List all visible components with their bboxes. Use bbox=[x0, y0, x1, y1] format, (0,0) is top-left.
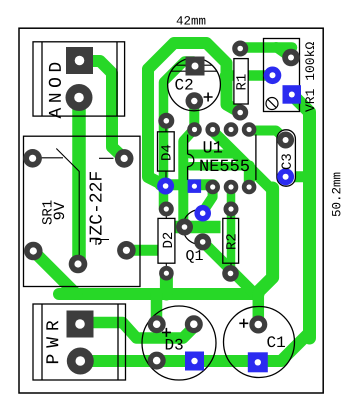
label 9V bbox=[54, 202, 65, 219]
label R2 bbox=[226, 234, 235, 249]
wire bottom band PWR round pad to right side bbox=[80, 333, 309, 362]
wire long horizontal band y294 bbox=[59, 288, 259, 300]
pad PWR round pin 2 bbox=[67, 348, 94, 375]
pad PWR square pin 1 bbox=[67, 311, 94, 338]
wire R1 top pad to VR1 dark pad bbox=[240, 42, 292, 53]
wire pin4 net vertical down to y294 band bbox=[259, 188, 273, 292]
label D3 bbox=[166, 339, 183, 350]
wire inner chevron C2 square pad down through D4 to D2 top pad bbox=[164, 61, 195, 209]
wire Q1 left pad band y227 bbox=[174, 221, 221, 234]
pad C1 top bbox=[249, 316, 267, 334]
relay contact silkscreen line bbox=[99, 157, 114, 159]
pad D3 bottom-left bbox=[148, 352, 166, 370]
pad U1 pin 4 bbox=[242, 180, 257, 195]
connector ANOD outline bbox=[33, 42, 125, 116]
pad D4 top bbox=[158, 113, 174, 129]
wire right vertical from VR1 blue square down bbox=[292, 95, 310, 339]
plus mark D3 bbox=[162, 328, 171, 337]
label ANOD bbox=[49, 63, 61, 119]
label C1 bbox=[267, 336, 285, 347]
label U1 bbox=[204, 141, 222, 152]
pad C3 top bbox=[277, 132, 294, 149]
relay switch blade line bbox=[56, 149, 79, 257]
wire outer chevron R1 bottom pad to D4 bottom pad bbox=[148, 43, 240, 186]
transistor Q1 arc bbox=[183, 210, 206, 245]
label SR1 bbox=[42, 200, 52, 224]
pad Q1 left bbox=[176, 219, 193, 236]
pad Q1 bottom bbox=[194, 233, 211, 250]
wire NE555 band y165.5 bbox=[190, 162, 251, 171]
capacitor C2 circle bbox=[168, 58, 221, 111]
wire pin4 stub bbox=[244, 166, 255, 187]
pad VR1 pin 2 blue square bbox=[283, 85, 302, 104]
wire C1 top pad stub to y294 band bbox=[253, 294, 265, 325]
relay coil silkscreen line bbox=[40, 157, 63, 159]
pad D2 bottom bbox=[159, 266, 174, 281]
IC U1 body outline bbox=[188, 135, 256, 181]
label PWR bbox=[46, 321, 58, 363]
wire U1 pin5 to C3 top pad bbox=[249, 131, 286, 141]
board outline bbox=[19, 28, 323, 393]
wire D2 bottom pad stub to y294 band bbox=[160, 273, 173, 294]
pad R1 top bbox=[232, 41, 248, 57]
potentiometer VR1 screw bbox=[266, 98, 278, 110]
pad D3 top-left bbox=[148, 315, 166, 333]
wire band y75.5 to VR1 blue round pad bbox=[225, 70, 273, 81]
pad ANOD square pin 1 bbox=[66, 47, 93, 74]
wire U1 pin2 to Q1 blue pad bbox=[203, 188, 213, 213]
wire ANOD square pad to relay top-right pad bbox=[81, 61, 124, 158]
wire relay bottom-left pad diagonal to y294 band bbox=[33, 251, 76, 294]
pad C2 square plus bbox=[186, 57, 205, 76]
wire C2 round pad down to Q1 left pad bbox=[183, 101, 194, 227]
wire branch to VR1 dark pad bbox=[276, 47, 291, 58]
label 42mm bbox=[177, 16, 206, 24]
label D4 bbox=[161, 145, 170, 160]
pad D4 bottom blue bbox=[157, 178, 174, 195]
pad U1 pin 2 bbox=[205, 180, 220, 195]
potentiometer VR1 body bbox=[264, 39, 300, 112]
pad R2 top bbox=[224, 202, 239, 217]
pad U1 pin 5 bbox=[242, 122, 257, 137]
pad relay top-left bbox=[23, 149, 42, 168]
pad VR1 pin 1 blue round bbox=[264, 67, 282, 85]
label D2 bbox=[163, 233, 172, 248]
diode D2 body bbox=[158, 214, 175, 269]
pad U1 pin 3 bbox=[224, 180, 239, 195]
pad D3 top-right bbox=[185, 315, 203, 333]
LED D3 circle bbox=[142, 306, 216, 380]
label VR1 100kΩ bbox=[305, 42, 315, 112]
pad ANOD round pin 2 bbox=[66, 84, 93, 111]
pad D2 top bbox=[159, 202, 174, 217]
connector PWR outline bbox=[33, 304, 126, 380]
label Q1 bbox=[186, 250, 203, 263]
pad U1 pin 1 blue square bbox=[188, 179, 202, 193]
pad relay bottom-right bbox=[117, 241, 136, 260]
wire U1 stub band y153 bbox=[190, 150, 233, 159]
diode D4 body bbox=[158, 128, 175, 178]
capacitor C3 body bbox=[277, 130, 296, 186]
pad relay bottom-left bbox=[24, 242, 43, 261]
pad R2 bottom bbox=[222, 265, 239, 282]
pad U1 pin 6 bbox=[224, 122, 239, 137]
wire U1 pin3 through R2 to R2 bottom pad bbox=[227, 187, 236, 273]
plus mark C1 bbox=[239, 319, 248, 328]
label JZC-22F bbox=[89, 172, 101, 245]
pad C1 bottom blue square bbox=[248, 352, 268, 372]
label R1 bbox=[236, 74, 245, 89]
label NE555 bbox=[200, 160, 249, 171]
wire relay bottom-right pad band y250 bbox=[126, 245, 158, 256]
pad relay bottom-center bbox=[69, 255, 88, 274]
capacitor C2 stripe lines bbox=[176, 64, 212, 66]
label 50.2mm bbox=[332, 173, 340, 217]
pad Q1 blue top bbox=[194, 205, 211, 222]
resistor R2 body bbox=[223, 214, 239, 269]
wire ANOD round pad to relay bottom-center pad bbox=[72, 98, 86, 265]
wire U1 pin7 diagonal to pin4 net bbox=[213, 131, 273, 191]
wire C3 bottom pad stub to right vertical bbox=[286, 171, 309, 182]
relay SR1 JZC-22F outline bbox=[24, 136, 141, 286]
wire Q1 bottom pad diagonal to y294 band bbox=[203, 242, 254, 293]
pad R1 bottom bbox=[232, 105, 248, 121]
pad U1 pin 8 bbox=[187, 122, 202, 137]
wire D4 blue pad to U1 pin1 pin2 band bbox=[160, 179, 213, 190]
pad C3 bottom blue bbox=[277, 168, 294, 185]
wire PWR square pad to D3 top-right pad bbox=[80, 323, 194, 339]
pad U1 pin 7 bbox=[205, 122, 220, 137]
pad relay top-right bbox=[115, 149, 134, 168]
capacitor C1 circle bbox=[224, 307, 295, 378]
pad D3 bottom-right blue square bbox=[185, 352, 204, 371]
pad VR1 pin 3 dark bbox=[282, 49, 300, 67]
label C3 bbox=[281, 154, 291, 169]
plus mark C2 bbox=[204, 93, 213, 102]
label C2 bbox=[175, 79, 192, 90]
pad C2 round minus bbox=[186, 92, 204, 110]
wire D3 top-left pad stub to y294 band bbox=[151, 294, 163, 324]
relay armature silkscreen hook bbox=[96, 240, 109, 246]
resistor R1 body bbox=[234, 59, 248, 104]
